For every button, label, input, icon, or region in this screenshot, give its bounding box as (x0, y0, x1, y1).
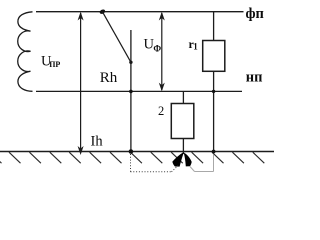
dimension line U_pr / Ih (left vertical with arrows both ends) (78, 12, 84, 155)
wire: phase conductor (top line) (36, 11, 244, 13)
svg-text:нп: нп (246, 70, 263, 86)
wire box2 branch from neutral (182, 91, 184, 103)
svg-text:2: 2 (158, 104, 164, 118)
svg-text:Ih: Ih (91, 133, 104, 149)
svg-text:1: 1 (193, 42, 198, 52)
junction dot Rh x neutral (129, 90, 133, 94)
ground hatching ticks (0, 152, 264, 163)
svg-text:фп: фп (246, 6, 264, 22)
wire Rh vertical (130, 30, 132, 152)
dotted dimension bracket (left, from Rh ground point) (131, 154, 179, 172)
fault diagonal (breakdown path) (102, 12, 130, 63)
wire: neutral conductor (bottom line) (36, 90, 242, 92)
ground surface line (0, 151, 274, 153)
junction dot r1 at ground (212, 150, 216, 154)
wire r1 to ground (213, 71, 215, 151)
inductor L (source winding) (18, 12, 33, 92)
svg-text:Ф: Ф (153, 43, 161, 53)
wire r1 branch (from phase line down) (213, 12, 215, 41)
resistor r1 box (203, 41, 225, 72)
earthing current spread symbol: right petal (184, 153, 192, 167)
dimension arrow U_f (between phase and neutral) (159, 12, 165, 92)
earthing current spread symbol: left petal (172, 152, 183, 166)
node: breakdown point on phase wire (99, 9, 106, 15)
svg-text:ПР: ПР (49, 60, 60, 69)
junction dot at diagonal end (129, 61, 132, 64)
junction dot Rh at ground (129, 149, 134, 154)
thin gray dimension bracket (right, to r1 ground point) (190, 155, 214, 172)
junction dot r1 x neutral (212, 90, 215, 93)
wire box2 to ground (182, 139, 184, 155)
svg-text:Rh: Rh (100, 70, 118, 86)
resistor 2 box (171, 104, 194, 139)
